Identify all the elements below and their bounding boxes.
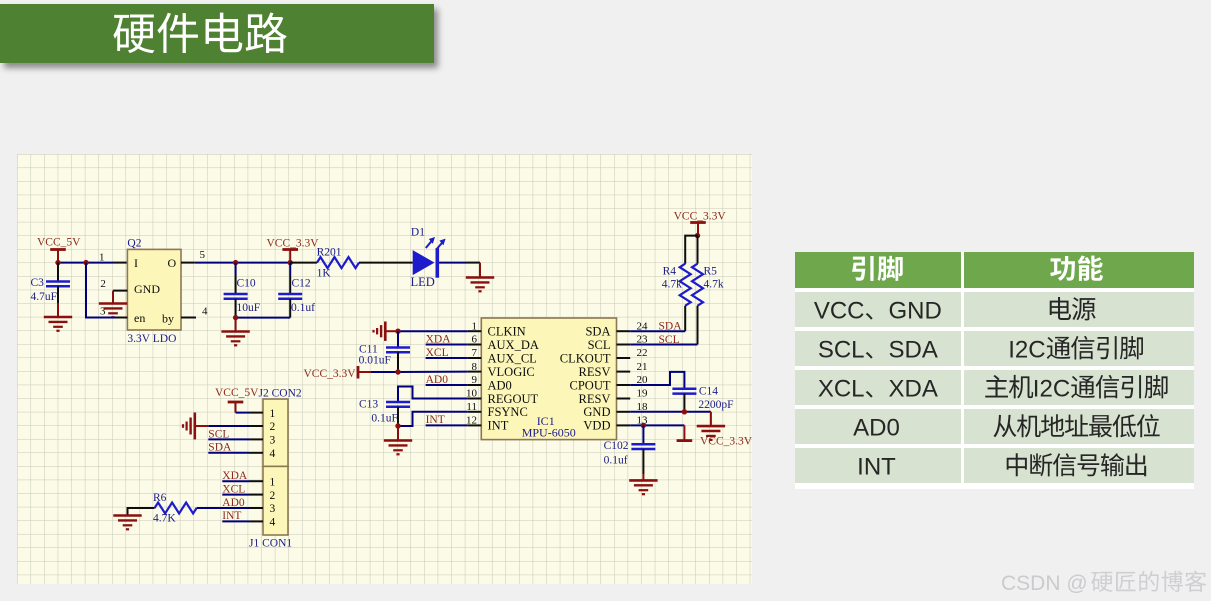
ground [479, 263, 481, 277]
wire [195, 262, 290, 264]
wire en [86, 263, 115, 318]
wire XCL [426, 357, 468, 359]
ground [235, 318, 237, 331]
svg-text:VCC: VCC [814, 297, 865, 324]
resistor R6 [128, 508, 155, 515]
wire [439, 262, 466, 264]
connector J2 body [263, 399, 288, 466]
capacitor C102 [642, 425, 644, 444]
wire XDA [426, 344, 468, 346]
wire XDA [222, 480, 249, 482]
svg-text:I2C: I2C [1008, 336, 1045, 363]
Q2 pin 4 stub [181, 317, 196, 319]
J2 pin stubs [249, 412, 263, 414]
node junction [233, 260, 238, 265]
node junction [695, 233, 700, 238]
node junction [233, 315, 238, 320]
svg-text:I2C: I2C [1033, 375, 1070, 402]
svg-text:GND: GND [889, 297, 942, 324]
ground [397, 426, 399, 440]
grid background [17, 154, 752, 584]
wire [236, 412, 250, 414]
connector J1 body [263, 466, 288, 535]
wire SDA [630, 330, 685, 332]
title banner 硬件电路 [0, 4, 434, 63]
wire AD0 [426, 384, 468, 386]
pin-function table background [795, 252, 1195, 489]
capacitor C11 [397, 331, 399, 347]
ground [195, 425, 209, 427]
wire INT [222, 520, 249, 522]
IC1 right pin stubs [617, 330, 631, 332]
svg-text:CSDN @: CSDN @ [1001, 572, 1088, 595]
capacitor C10 [235, 263, 237, 276]
op-amp IC1 MPU-6050 body [481, 318, 616, 440]
resistor R201 [290, 262, 317, 264]
wire SCL [630, 344, 697, 346]
node junction [395, 369, 400, 374]
J1 pin stubs [249, 480, 263, 482]
LDO regulator Q2 [127, 249, 181, 330]
ground [385, 330, 398, 332]
node junction [55, 260, 60, 265]
wire FSYNC jog [398, 412, 468, 426]
capacitor C3 [57, 263, 59, 282]
svg-text:AD0: AD0 [853, 414, 900, 441]
svg-text:XDA: XDA [889, 375, 938, 402]
wire [113, 262, 127, 264]
wire SCL [208, 438, 249, 440]
wire SDA [208, 452, 249, 454]
capacitor C14 [672, 388, 696, 391]
capacitor C13 [386, 401, 410, 404]
wire [236, 317, 291, 319]
wire pin1 [398, 330, 468, 332]
wire XCL [222, 494, 249, 496]
ground [44, 316, 72, 319]
wire CPOUT jog [630, 372, 684, 389]
node junction [641, 423, 646, 428]
ground [113, 514, 141, 517]
LED D1 [413, 250, 435, 275]
node junction [395, 329, 400, 334]
wire [371, 371, 398, 373]
svg-text:XCL: XCL [818, 375, 865, 402]
wire INT [426, 424, 468, 426]
IC1 left pin stubs [468, 330, 482, 332]
schematic canvas [17, 154, 752, 584]
node junction [83, 260, 88, 265]
wire [58, 262, 113, 264]
node junction [395, 423, 400, 428]
svg-text:SCL: SCL [818, 336, 865, 363]
table header 引脚/功能 [852, 256, 874, 281]
ground [99, 302, 127, 305]
node junction [682, 409, 687, 414]
node junction [288, 260, 293, 265]
banner text 硬件电路 [113, 14, 154, 53]
ground [710, 412, 712, 425]
power port VCC_3.3V inverted [683, 425, 685, 440]
resistor R4 [685, 236, 697, 264]
svg-text:SDA: SDA [889, 336, 938, 363]
resistor R5 [697, 236, 699, 264]
pin-function table header cells [795, 252, 961, 288]
wire REGOUT jog [398, 387, 468, 403]
wire GND [630, 411, 711, 413]
Q2 pin 5 stub [181, 262, 195, 264]
svg-text:INT: INT [857, 453, 896, 480]
ground [629, 479, 657, 482]
wire [208, 425, 249, 427]
wire VDD [630, 424, 684, 426]
capacitor C12 [289, 263, 291, 276]
Q2 pin 2 GND wire [113, 290, 127, 292]
